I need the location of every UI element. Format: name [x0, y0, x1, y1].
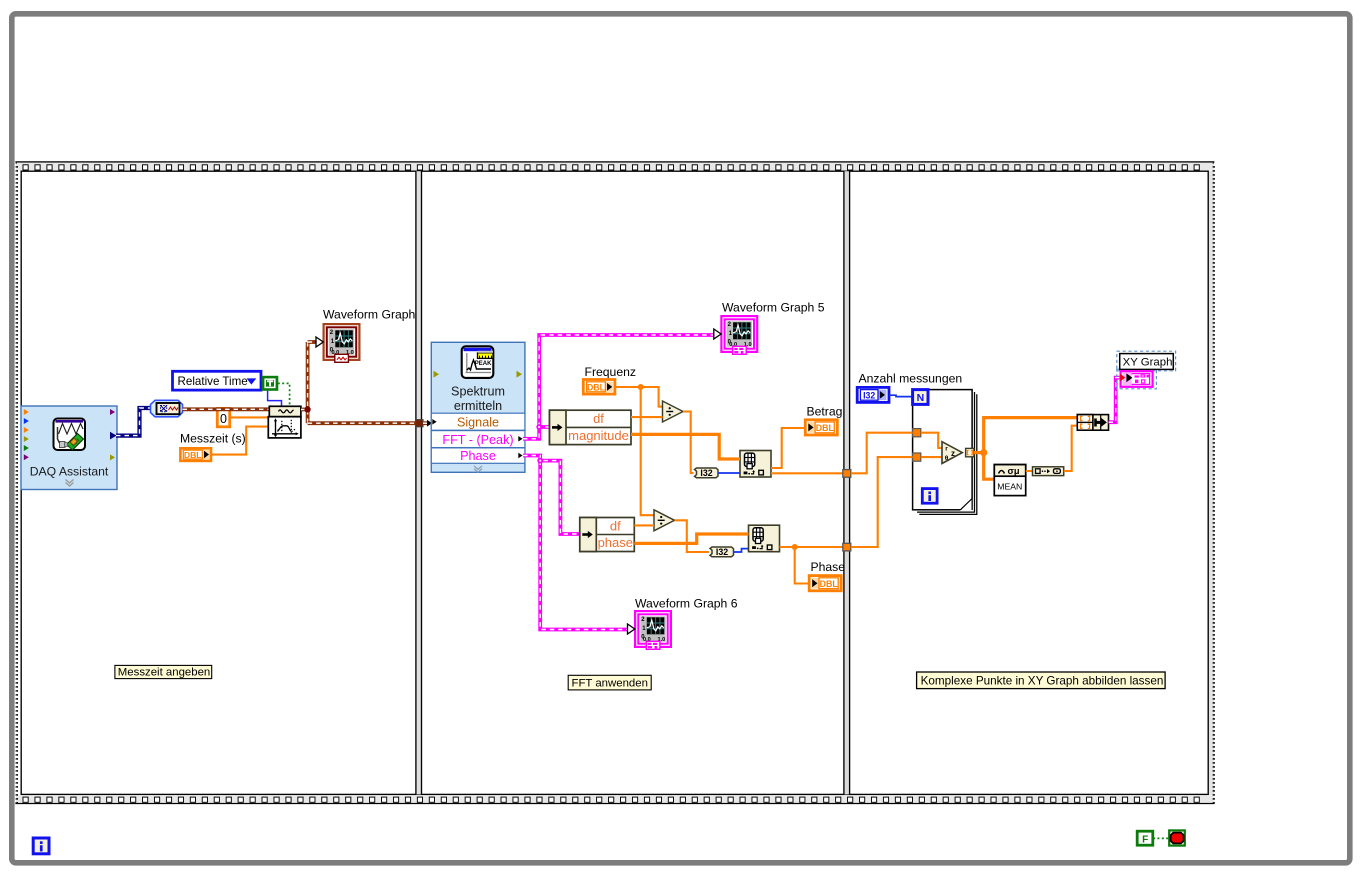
Anzahl messungen label [859, 371, 963, 385]
svg-text:Waveform Graph 6: Waveform Graph 6 [635, 596, 738, 610]
tunnel A orange on divider 2 [843, 470, 851, 478]
frame divider 1 [416, 171, 422, 794]
I32 conversion 1 [695, 468, 719, 478]
svg-text:F: F [1142, 834, 1148, 845]
Messzeit DBL control [180, 448, 211, 461]
wire magenta Phase to unbundle2 and WG6 [523, 456, 628, 630]
svg-text:df: df [610, 518, 621, 533]
loop indexing output tunnel [966, 448, 974, 456]
Waveform Graph 5 label [722, 301, 825, 315]
wire array out of loop with branches [974, 418, 1077, 480]
Frequenz label [585, 365, 637, 379]
svg-text:Signale: Signale [457, 416, 499, 430]
wire tunnel A to loop [851, 433, 913, 474]
svg-text:I32: I32 [863, 390, 875, 400]
XY Graph selection marquee [1117, 351, 1176, 389]
Phase DBL indicator [809, 576, 841, 591]
svg-text:Frequenz: Frequenz [585, 365, 637, 379]
convert from dynamic data node [151, 400, 183, 417]
unbundle df phase [580, 518, 635, 552]
svg-text:XY Graph: XY Graph [1123, 356, 1173, 368]
svg-text:θ: θ [945, 455, 949, 462]
F boolean icon bottom right [1137, 831, 1153, 845]
svg-text:Relative Time: Relative Time [178, 375, 248, 388]
wire dynamic data DAQ to convert [116, 408, 151, 436]
wire df1 to divide1 [631, 416, 663, 418]
loop input tunnel 2 [913, 453, 921, 461]
svg-text:N: N [917, 392, 925, 404]
index array 1 [740, 451, 771, 478]
wire blue ring to build node [261, 381, 282, 407]
svg-text:Waveform Graph 5: Waveform Graph 5 [722, 301, 825, 315]
svg-text:0: 0 [220, 412, 227, 426]
svg-text:ermitteln: ermitteln [454, 399, 502, 413]
svg-text:Messzeit angeben: Messzeit angeben [118, 667, 210, 679]
svg-text:Waveform Graph: Waveform Graph [323, 307, 415, 321]
XY Graph label [1120, 354, 1174, 370]
svg-text:DBL: DBL [184, 450, 202, 460]
svg-text:DBL: DBL [816, 423, 835, 433]
wire orange 0 to build node [230, 416, 270, 418]
info i icon bottom left [33, 838, 49, 854]
svg-text:DAQ Assistant: DAQ Assistant [30, 465, 109, 479]
polar to complex node [942, 442, 962, 464]
svg-text:phase: phase [598, 535, 633, 550]
svg-text:DBL: DBL [820, 579, 839, 589]
wire magnitude array to index array 1 [631, 434, 740, 459]
svg-text:z: z [951, 449, 955, 458]
wire blue I32conv1 to index array 1 [718, 472, 740, 474]
brown tunnel frame1 to frame2 [416, 420, 432, 427]
DAQ Assistant express VI [21, 406, 117, 490]
wire divide1 to I32 conversion 1 [683, 412, 694, 474]
wire cluster node to bundle [1064, 426, 1078, 471]
wire index2 to tunnel B and Phase indicator [780, 544, 844, 584]
Betrag DBL indicator [805, 420, 837, 435]
svg-text:magnitude: magnitude [568, 428, 629, 443]
wires inside loop to polar node [921, 433, 942, 457]
svg-text:Anzahl messungen: Anzahl messungen [859, 371, 963, 385]
divide node 1 [663, 401, 684, 422]
frame divider 2 [844, 171, 850, 794]
svg-text:FFT anwenden: FFT anwenden [572, 677, 648, 689]
svg-text:df: df [593, 411, 604, 426]
svg-text:FFT - (Peak): FFT - (Peak) [442, 433, 513, 447]
build waveform node [268, 406, 301, 438]
wire tunnel B to loop [851, 457, 913, 547]
MEAN statistics node [994, 465, 1025, 496]
wire waveform node to junction and branches [301, 342, 416, 423]
Anzahl messungen I32 control [857, 387, 889, 402]
N count terminal [913, 390, 928, 405]
wire green dotted T to build node [278, 383, 290, 406]
wire magenta bundle to XY Graph [1109, 378, 1121, 423]
divide node 2 [654, 510, 675, 531]
svg-text:σμ: σμ [1007, 466, 1019, 476]
svg-text:Betrag: Betrag [807, 405, 843, 419]
wire orange Frequenz to divides [615, 384, 663, 515]
Waveform Graph 6 terminal [628, 611, 671, 649]
Betrag label [807, 405, 843, 419]
Spektrum ermitteln express VI [431, 342, 525, 472]
unbundle df magnitude [550, 410, 632, 444]
tunnel B orange on divider 2 [843, 543, 851, 551]
flat sequence structure border [15, 162, 1214, 804]
array to cluster node [1033, 467, 1064, 476]
svg-text:Komplexe Punkte in XY Graph ab: Komplexe Punkte in XY Graph abbilden las… [921, 674, 1164, 687]
index array 2 [749, 525, 780, 552]
svg-text:I32: I32 [700, 468, 712, 478]
Messzeit angeben comment label [115, 665, 212, 678]
svg-text:Phase: Phase [811, 560, 846, 574]
for loop border [913, 390, 977, 515]
green dotted wire F to stop [1153, 837, 1169, 839]
numeric constant 0 [217, 408, 229, 426]
svg-text:MEAN: MEAN [997, 481, 1022, 491]
Waveform Graph 6 label [635, 596, 738, 610]
wire df2 to divide2 [634, 524, 654, 526]
wire blue I32 to N [889, 395, 913, 396]
wire phase array to index array 2 [634, 534, 748, 543]
wire index1 to tunnel A [771, 472, 843, 474]
wire MEAN to array-to-cluster node [1026, 470, 1033, 472]
svg-text:DBL: DBL [587, 382, 606, 392]
wire index1 to Betrag [771, 428, 806, 468]
Waveform Graph terminal [316, 324, 359, 362]
Phase label [811, 560, 846, 574]
wire waveform convert to build node [183, 407, 270, 411]
wire orange Messzeit to build node [211, 427, 269, 455]
svg-text:Spektrum: Spektrum [451, 384, 505, 398]
wire magenta FFT peak to unbundle and WG5 [523, 335, 714, 439]
svg-text:Phase: Phase [460, 449, 496, 463]
Relative Time ring constant [173, 371, 262, 390]
XY Graph terminal [1120, 371, 1152, 387]
Waveform Graph label [323, 307, 415, 321]
svg-text:PEAK: PEAK [475, 361, 492, 367]
svg-text:I32: I32 [716, 547, 728, 557]
Waveform Graph 5 terminal [714, 316, 757, 354]
wire blue I32conv2 to index array 2 [734, 549, 749, 552]
i iteration terminal [922, 489, 937, 504]
bundle build-xy node [1077, 415, 1108, 431]
stop button icon [1169, 830, 1185, 845]
Frequenz DBL control [583, 380, 615, 395]
I32 conversion 2 [710, 547, 734, 557]
wire divide2 to I32 conversion 2 [675, 520, 710, 552]
FFT anwenden comment label [568, 675, 651, 690]
loop input tunnel 1 [913, 429, 921, 437]
boolean constant T [262, 376, 278, 390]
Messzeit (s) label [180, 432, 246, 446]
Komplexe Punkte comment label [917, 672, 1166, 689]
svg-text:Messzeit (s): Messzeit (s) [180, 432, 246, 446]
